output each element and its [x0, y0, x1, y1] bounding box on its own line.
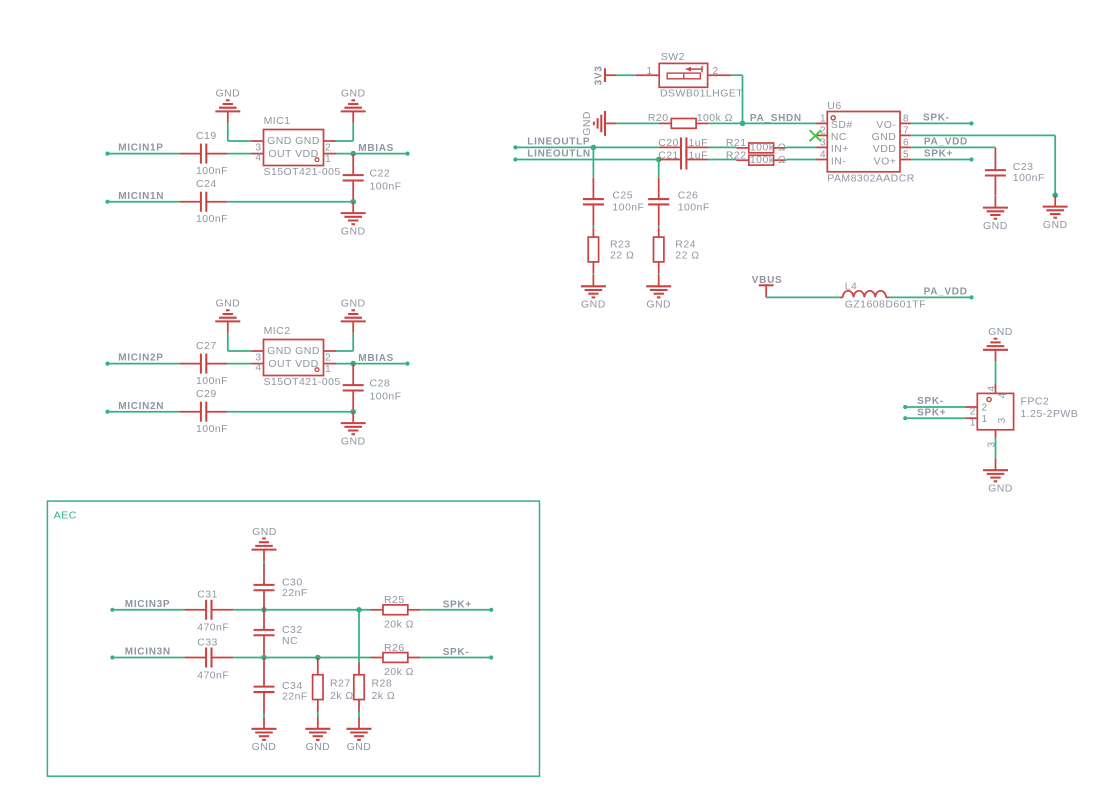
svg-text:GND: GND	[646, 299, 671, 311]
ground	[658, 275, 660, 286]
ground	[227, 321, 229, 332]
ground below C34	[263, 717, 265, 728]
node SPK-	[969, 121, 973, 125]
svg-text:1: 1	[982, 414, 988, 425]
junction	[315, 655, 321, 661]
capacitor C29	[179, 411, 201, 413]
junction MBIAS	[350, 361, 356, 367]
svg-text:GND: GND	[252, 526, 277, 538]
svg-text:2k Ω: 2k Ω	[372, 690, 396, 702]
svg-text:R27: R27	[330, 678, 351, 690]
ground left of R20	[605, 122, 616, 124]
svg-text:2: 2	[325, 352, 331, 363]
svg-text:1: 1	[820, 113, 826, 124]
svg-text:1: 1	[970, 418, 976, 429]
wire SPK+ to FPC2	[905, 417, 965, 419]
wire to C26	[658, 160, 660, 178]
svg-text:VO-: VO-	[876, 119, 896, 131]
wire tick	[658, 273, 660, 275]
svg-text:C25: C25	[612, 189, 633, 201]
svg-text:R22: R22	[726, 149, 747, 161]
svg-text:L4: L4	[845, 280, 858, 292]
pin 7 U6	[900, 134, 911, 136]
mic MIC1	[264, 130, 324, 166]
resistor R22	[736, 159, 749, 161]
capacitor C34	[263, 658, 265, 687]
svg-text:PA_VDD: PA_VDD	[924, 137, 968, 148]
resistor R24	[658, 228, 660, 237]
svg-text:C22: C22	[370, 168, 391, 180]
capacitor C27	[179, 363, 201, 365]
svg-text:4: 4	[998, 392, 1009, 398]
svg-text:PA_VDD: PA_VDD	[924, 287, 968, 298]
node SPK+	[903, 416, 907, 420]
svg-text:R20: R20	[648, 112, 669, 124]
node SPK- end	[489, 655, 493, 659]
svg-text:1: 1	[325, 364, 331, 375]
svg-text:2: 2	[325, 142, 331, 153]
connector FPC2	[977, 393, 1013, 429]
svg-text:470nF: 470nF	[197, 669, 229, 681]
svg-text:GND: GND	[215, 88, 240, 100]
svg-text:GND: GND	[983, 220, 1008, 232]
svg-text:C19: C19	[196, 130, 217, 142]
svg-text:2: 2	[713, 66, 719, 77]
svg-text:1.25-2PWB: 1.25-2PWB	[1021, 408, 1079, 420]
wire LINEOUTLN	[515, 159, 659, 161]
ground	[592, 275, 594, 286]
svg-text:MICIN1N: MICIN1N	[118, 191, 164, 202]
svg-text:5: 5	[903, 149, 909, 160]
wire tick	[592, 273, 594, 275]
junction	[1052, 192, 1058, 198]
svg-text:100nF: 100nF	[370, 391, 402, 403]
node MICIN3N	[110, 655, 114, 659]
svg-text:SPK+: SPK+	[917, 408, 946, 419]
svg-text:MICIN3N: MICIN3N	[125, 647, 171, 658]
wire pin3 to GND	[228, 350, 251, 352]
svg-text:GND: GND	[581, 111, 593, 136]
svg-text:C31: C31	[197, 589, 218, 601]
svg-text:1uF: 1uF	[689, 137, 708, 149]
switch SW2	[636, 74, 659, 76]
svg-text:R25: R25	[384, 594, 405, 606]
wire MICIN3P	[112, 609, 184, 611]
pin 4 MIC2	[251, 363, 263, 365]
node MBIAS end	[405, 152, 409, 156]
wire pin2 to GND	[336, 350, 353, 352]
node LINEOUTLN	[513, 157, 517, 161]
wire PA_VDD pin6	[911, 146, 995, 148]
inductor L4	[840, 296, 843, 298]
junction	[261, 655, 267, 661]
capacitor C24	[179, 201, 201, 203]
svg-text:100nF: 100nF	[612, 202, 644, 214]
node SPK+ end	[489, 608, 493, 612]
pin 1 FPC2	[965, 417, 978, 419]
pin 2 U6	[815, 134, 827, 136]
ground	[352, 321, 354, 332]
svg-text:MICIN3P: MICIN3P	[125, 599, 170, 610]
svg-text:C33: C33	[197, 636, 218, 648]
svg-text:470nF: 470nF	[197, 622, 229, 634]
svg-text:22nF: 22nF	[282, 691, 308, 703]
wire tick	[592, 226, 594, 228]
svg-text:AEC: AEC	[54, 510, 77, 522]
svg-text:GND: GND	[1043, 219, 1068, 231]
svg-text:100nF: 100nF	[196, 165, 228, 177]
node MICIN2P	[105, 362, 109, 366]
svg-text:4: 4	[255, 152, 261, 163]
svg-text:3V3: 3V3	[593, 65, 604, 85]
pin 6 U6	[900, 146, 911, 148]
ground	[352, 412, 354, 423]
ground	[352, 202, 354, 213]
ground below R27	[317, 717, 319, 728]
svg-text:22 Ω: 22 Ω	[610, 250, 634, 262]
node LINEOUTLP	[513, 145, 517, 149]
svg-text:GND GND: GND GND	[267, 135, 320, 147]
svg-text:6: 6	[903, 137, 909, 148]
pin 4 FPC2	[995, 384, 997, 394]
wire PA_VDD	[889, 296, 971, 298]
svg-text:R28: R28	[372, 678, 393, 690]
svg-text:VO+: VO+	[874, 155, 897, 167]
pin 3 U6	[815, 146, 827, 148]
svg-text:U6: U6	[827, 100, 841, 112]
ground	[227, 111, 229, 122]
wire 3V3 to SW2	[616, 74, 635, 76]
pin 3 MIC1	[251, 140, 263, 142]
junction MBIAS	[350, 151, 356, 157]
ground below R28	[358, 717, 360, 728]
svg-text:SPK-: SPK-	[923, 112, 950, 123]
AEC group box	[47, 501, 539, 776]
svg-text:VBUS: VBUS	[752, 275, 783, 286]
svg-text:C26: C26	[678, 189, 699, 201]
node MICIN1N	[105, 200, 109, 204]
svg-text:OUT VDD: OUT VDD	[268, 358, 318, 370]
pin 4 U6	[815, 159, 827, 161]
wire pin3 to GND	[228, 140, 251, 142]
svg-text:20k Ω: 20k Ω	[384, 666, 414, 678]
svg-text:MIC1: MIC1	[264, 115, 291, 127]
capacitor C25	[592, 178, 594, 200]
resistor R21	[736, 147, 749, 149]
svg-text:4: 4	[986, 385, 997, 391]
junction	[356, 607, 362, 613]
capacitor C23	[994, 149, 996, 171]
svg-text:SPK-: SPK-	[917, 396, 944, 407]
supply VBUS	[759, 284, 774, 286]
svg-text:MICIN2N: MICIN2N	[118, 401, 164, 412]
pin 3 FPC2	[995, 430, 997, 438]
svg-text:100nF: 100nF	[196, 423, 228, 435]
pin1 marker FPC2	[987, 397, 991, 401]
node SPK+	[969, 157, 973, 161]
svg-text:MBIAS: MBIAS	[358, 353, 394, 364]
svg-text:MBIAS: MBIAS	[358, 143, 394, 154]
svg-text:GND: GND	[988, 326, 1013, 338]
pin 5 U6	[900, 159, 911, 161]
svg-text:100nF: 100nF	[1013, 172, 1045, 184]
capacitor C19	[179, 153, 201, 155]
no-connect X on pin 2	[810, 130, 821, 141]
svg-text:2k Ω: 2k Ω	[330, 690, 354, 702]
capacitor C30	[263, 563, 265, 585]
pin 2 FPC2	[965, 406, 978, 408]
svg-text:GND: GND	[872, 131, 897, 143]
junction	[350, 409, 356, 415]
pin 1 MIC1	[324, 153, 337, 155]
svg-text:100nF: 100nF	[678, 202, 710, 214]
pin 2 MIC2	[324, 350, 337, 352]
ground	[994, 196, 996, 207]
op-amp U6 box	[827, 112, 900, 172]
svg-text:SPK+: SPK+	[443, 599, 472, 610]
wire MICIN2N	[108, 411, 180, 413]
svg-text:1: 1	[325, 154, 331, 165]
node MICIN1P	[105, 152, 109, 156]
junction	[261, 607, 267, 613]
wire tick	[994, 195, 996, 196]
pin 8 U6	[900, 122, 911, 124]
wire LINEOUTLP	[515, 146, 659, 148]
svg-text:2: 2	[982, 403, 988, 414]
svg-text:PAM8302AADCR: PAM8302AADCR	[827, 172, 915, 184]
svg-text:GND: GND	[341, 298, 366, 310]
wire tick	[658, 226, 660, 228]
junction LINEOUTLN	[656, 157, 662, 163]
svg-text:GND: GND	[215, 298, 240, 310]
pin 1 U6	[815, 122, 827, 124]
svg-text:GZ1608D601TF: GZ1608D601TF	[845, 299, 926, 311]
svg-text:SPK-: SPK-	[443, 647, 470, 658]
svg-text:MICIN2P: MICIN2P	[118, 353, 163, 364]
svg-text:GND: GND	[341, 225, 366, 237]
svg-text:100k Ω: 100k Ω	[697, 112, 733, 124]
wire GND to FPC2 pin4	[995, 361, 997, 383]
svg-text:100k Ω: 100k Ω	[750, 154, 786, 166]
pin 2 MIC1	[324, 140, 337, 142]
ground	[352, 111, 354, 122]
svg-text:3: 3	[997, 417, 1008, 423]
svg-text:C24: C24	[196, 178, 217, 190]
wire tick	[358, 712, 360, 718]
pin 4 MIC1	[251, 153, 263, 155]
svg-text:4: 4	[820, 149, 826, 160]
svg-text:100nF: 100nF	[196, 375, 228, 387]
pin 1 MIC2	[324, 363, 337, 365]
svg-text:GND: GND	[341, 435, 366, 447]
node MICIN2N	[105, 410, 109, 414]
capacitor C20	[660, 146, 682, 148]
svg-text:7: 7	[903, 125, 909, 136]
wire PA_SHDN	[709, 122, 816, 124]
wire VBUS to L4	[766, 296, 840, 298]
node MBIAS end	[405, 362, 409, 366]
wire SPK-	[911, 122, 971, 124]
wire MICIN1P	[108, 153, 180, 155]
mic MIC2	[264, 340, 324, 376]
svg-text:22nF: 22nF	[282, 587, 308, 599]
capacitor C21	[660, 159, 682, 161]
svg-text:GND: GND	[581, 299, 606, 311]
svg-text:FPC2: FPC2	[1021, 395, 1050, 407]
ground	[1054, 195, 1056, 206]
node MICIN3P	[110, 608, 114, 612]
wire tick	[317, 712, 319, 718]
resistor R26	[371, 657, 384, 659]
wire MICIN1N	[108, 201, 180, 203]
supply 3V3	[604, 68, 606, 82]
svg-text:SD#: SD#	[831, 119, 853, 131]
wire GND pin7	[911, 134, 1055, 136]
pin 3 MIC2	[251, 350, 263, 352]
svg-text:S15OT421-005: S15OT421-005	[264, 376, 341, 388]
svg-text:GND: GND	[341, 88, 366, 100]
wire MICIN2P	[108, 363, 180, 365]
capacitor C28	[352, 364, 354, 386]
svg-text:20k Ω: 20k Ω	[384, 619, 414, 631]
wire GND to R20	[616, 122, 659, 124]
wire pin2 to GND	[336, 140, 353, 142]
wire SPK+	[911, 159, 971, 161]
wire to C25	[592, 147, 594, 177]
node PA_VDD end	[969, 295, 973, 299]
capacitor C31	[185, 609, 207, 611]
wire MBIAS	[336, 363, 407, 365]
svg-text:GND: GND	[988, 483, 1013, 495]
resistor R20	[659, 122, 672, 124]
svg-text:IN-: IN-	[831, 155, 846, 167]
wire MBIAS	[336, 153, 407, 155]
svg-text:DSWB01LHGET: DSWB01LHGET	[660, 88, 743, 100]
resistor R23	[592, 228, 594, 237]
svg-text:C21: C21	[658, 149, 679, 161]
svg-text:GND: GND	[347, 741, 372, 753]
svg-text:C29: C29	[196, 388, 217, 400]
svg-text:PA_SHDN: PA_SHDN	[750, 113, 802, 124]
svg-text:100nF: 100nF	[370, 181, 402, 193]
ground above C30	[263, 550, 265, 561]
svg-text:C28: C28	[370, 378, 391, 390]
svg-text:VDD: VDD	[873, 143, 897, 155]
wire SW2 to PA_SHDN	[731, 74, 742, 76]
svg-text:100k Ω: 100k Ω	[750, 142, 786, 154]
capacitor C22	[352, 154, 354, 176]
svg-text:MICIN1P: MICIN1P	[118, 143, 163, 154]
svg-text:4: 4	[255, 362, 261, 373]
svg-text:8: 8	[903, 113, 909, 124]
junction	[350, 199, 356, 205]
svg-text:GND GND: GND GND	[267, 345, 320, 357]
ground top of FPC2	[995, 350, 997, 361]
resistor R27	[317, 658, 319, 675]
svg-text:2: 2	[970, 406, 976, 417]
svg-text:IN+: IN+	[831, 143, 849, 155]
svg-text:LINEOUTLN: LINEOUTLN	[527, 149, 591, 160]
svg-text:1: 1	[646, 66, 652, 77]
svg-text:NC: NC	[282, 635, 298, 647]
capacitor C26	[658, 178, 660, 200]
svg-text:SPK+: SPK+	[924, 148, 953, 159]
svg-text:S15OT421-005: S15OT421-005	[264, 166, 341, 178]
svg-text:SW2: SW2	[661, 51, 685, 63]
svg-text:NC: NC	[831, 131, 847, 143]
svg-text:C27: C27	[196, 340, 217, 352]
resistor R25	[371, 609, 384, 611]
wire SPK+ to R28	[358, 610, 360, 663]
svg-text:LINEOUTLP: LINEOUTLP	[527, 137, 590, 148]
junction PA_SHDN	[740, 121, 746, 127]
node SPK-	[903, 405, 907, 409]
svg-text:100nF: 100nF	[196, 213, 228, 225]
capacitor C33	[185, 657, 207, 659]
capacitor C32	[263, 610, 265, 630]
svg-text:3: 3	[820, 137, 826, 148]
wire MICIN3N	[112, 657, 184, 659]
svg-text:22 Ω: 22 Ω	[675, 250, 699, 262]
pin1 marker U6	[831, 116, 835, 120]
resistor R28	[358, 662, 360, 674]
svg-text:OUT VDD: OUT VDD	[268, 148, 318, 160]
wire SPK- to FPC2	[905, 406, 965, 408]
svg-text:1uF: 1uF	[689, 149, 708, 161]
ground bottom of FPC2	[995, 459, 997, 470]
svg-text:C20: C20	[658, 137, 679, 149]
wire FPC2 pin3 to GND	[995, 438, 997, 459]
wire tick	[263, 714, 265, 718]
svg-text:R21: R21	[726, 137, 747, 149]
svg-text:GND: GND	[305, 741, 330, 753]
junction LINEOUTLP	[591, 145, 597, 151]
wire tick	[263, 561, 265, 563]
svg-text:MIC2: MIC2	[264, 325, 291, 337]
svg-text:R26: R26	[384, 642, 405, 654]
svg-text:GND: GND	[252, 741, 277, 753]
